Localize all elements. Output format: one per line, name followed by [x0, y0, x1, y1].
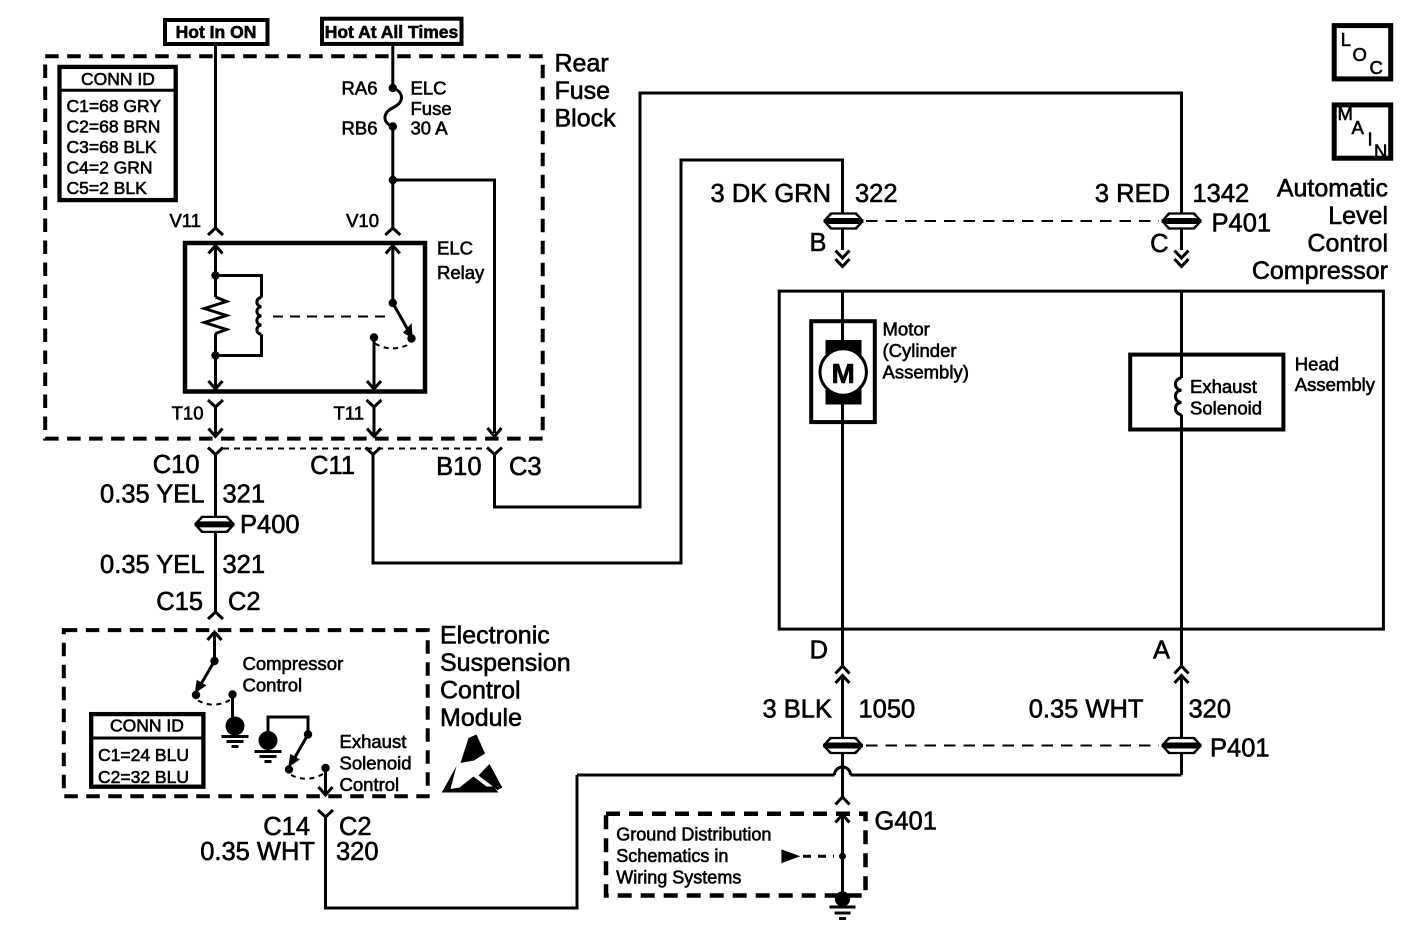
- svg-text:0.35 WHT: 0.35 WHT: [1029, 696, 1144, 724]
- svg-text:C1=24 BLU: C1=24 BLU: [98, 745, 189, 765]
- arrow down to C14 border: [324, 768, 327, 795]
- relay box ELC Relay: [185, 243, 425, 392]
- connector dashed tie line C10-C11-B10: [223, 448, 487, 450]
- wire C11 to B terminal (3 DK GRN 322): [373, 160, 843, 563]
- svg-text:I: I: [1368, 129, 1373, 150]
- junction node: [389, 176, 397, 184]
- svg-text:C1=68 GRY: C1=68 GRY: [67, 96, 162, 116]
- svg-text:Fuse: Fuse: [411, 98, 452, 119]
- svg-text:Compressor: Compressor: [1252, 257, 1388, 285]
- node on ground wire: [839, 853, 846, 860]
- relay node top-left: [211, 271, 219, 279]
- ground G401 symbol: [835, 891, 850, 906]
- wire C14 down and right (0.35 WHT 320): [326, 775, 578, 908]
- svg-text:0.35 WHT: 0.35 WHT: [200, 838, 315, 866]
- relay pin arrow up (V10 side): [386, 246, 400, 254]
- svg-text:C2: C2: [228, 588, 261, 616]
- svg-text:Control: Control: [243, 675, 303, 696]
- arrow up D with stem to lens: [836, 676, 850, 684]
- svg-text:Compressor: Compressor: [243, 653, 344, 674]
- terminal fork C14: [318, 810, 333, 823]
- wire: fuse to junction: [391, 127, 394, 181]
- svg-text:Module: Module: [440, 704, 522, 732]
- svg-text:Relay: Relay: [437, 262, 485, 283]
- arrow up A with stem to lens: [1175, 676, 1189, 684]
- wire C10 to P400: [214, 460, 217, 516]
- svg-text:Motor: Motor: [883, 319, 930, 340]
- svg-text:Electronic: Electronic: [440, 622, 550, 650]
- svg-text:320: 320: [336, 838, 379, 866]
- svg-text:C: C: [1150, 230, 1168, 258]
- svg-text:320: 320: [1189, 696, 1232, 724]
- fuse element S-curve: [385, 88, 402, 127]
- svg-text:CONN ID: CONN ID: [81, 69, 155, 89]
- terminal fork V11: [208, 228, 223, 235]
- terminal fork G401: [836, 797, 850, 805]
- svg-text:T11: T11: [333, 403, 364, 424]
- exhaust solenoid switch pivot node: [304, 730, 312, 738]
- fuse ELC 30A: node RA6: [389, 84, 397, 92]
- svg-text:Schematics in: Schematics in: [616, 846, 728, 866]
- relay dashed throw arc: [375, 344, 410, 349]
- svg-text:N: N: [1374, 141, 1387, 162]
- compressor control contact node: [192, 691, 200, 699]
- relay switch arm with arrowhead: [393, 303, 408, 330]
- svg-text:321: 321: [223, 481, 266, 509]
- connector P400 lens: [195, 516, 235, 533]
- node RB6: [389, 122, 397, 130]
- box: MAIN: [1334, 105, 1391, 158]
- svg-text:P401: P401: [1210, 735, 1270, 763]
- reference arrow (see ground distribution): [781, 849, 800, 863]
- svg-text:(Cylinder: (Cylinder: [883, 340, 957, 361]
- svg-text:3 BLK: 3 BLK: [763, 696, 832, 724]
- terminal fork T11: [367, 400, 382, 414]
- motor M1 (cylinder assembly): [811, 321, 875, 422]
- svg-text:P401: P401: [1212, 210, 1272, 238]
- svg-text:Solenoid: Solenoid: [1190, 398, 1262, 419]
- svg-text:RA6: RA6: [342, 78, 378, 99]
- ESC pin arrow up at C2 (compressor control): [208, 632, 222, 640]
- ground stem (switch 1): [231, 695, 234, 718]
- svg-text:Block: Block: [555, 105, 617, 133]
- terminal fork V10: [385, 228, 400, 235]
- relay pin arrow up (V11 side): [209, 246, 223, 254]
- svg-text:C10: C10: [153, 451, 200, 479]
- exhaust solenoid switch arm: [295, 735, 309, 759]
- wire P400 to C15: [214, 533, 217, 612]
- connector lens D (BLK): [823, 737, 863, 754]
- dashed box: Ground Distribution: [606, 814, 866, 896]
- ground symbol (switch 2): [259, 731, 278, 750]
- svg-text:T10: T10: [172, 403, 204, 424]
- exhaust solenoid coil: [1175, 378, 1181, 415]
- ground hook wire (switch 2): [268, 717, 308, 735]
- arrow T11 to border: [373, 414, 376, 437]
- svg-text:C4=2 GRN: C4=2 GRN: [67, 158, 153, 178]
- resistor (relay coil suppression): [214, 276, 217, 298]
- svg-text:D: D: [810, 637, 828, 665]
- svg-text:Head: Head: [1295, 354, 1339, 375]
- terminal fork C11: [366, 448, 381, 461]
- arrow T10 to border: [214, 414, 217, 437]
- svg-text:A: A: [1352, 117, 1365, 138]
- B stem and double chevrons into compressor: [841, 230, 844, 251]
- svg-text:Hot In ON: Hot In ON: [176, 22, 257, 42]
- svg-text:G401: G401: [875, 808, 937, 836]
- svg-text:V11: V11: [169, 210, 201, 231]
- terminal fork A (below box): [1175, 666, 1189, 674]
- exhaust solenoid contact node: [285, 765, 293, 773]
- svg-text:C11: C11: [310, 452, 355, 480]
- box: Hot In ON: [165, 20, 268, 44]
- dashed box: Rear Fuse Block: [45, 56, 543, 438]
- svg-text:Control: Control: [440, 677, 521, 705]
- arrow down at fuse block border (B10 wire): [488, 428, 502, 437]
- svg-text:C5=2 BLK: C5=2 BLK: [67, 178, 148, 198]
- connector lens A (WHT): [1162, 737, 1202, 754]
- svg-text:Exhaust: Exhaust: [1190, 376, 1257, 397]
- svg-text:CONN ID: CONN ID: [110, 716, 184, 736]
- wire: junction to V10 fork: [391, 180, 394, 228]
- wire A lens down to WHT run: [1180, 754, 1183, 775]
- svg-text:1050: 1050: [859, 696, 916, 724]
- svg-text:C2: C2: [339, 813, 372, 841]
- terminal fork C10: [208, 448, 223, 461]
- box: compressor assembly: [779, 291, 1383, 629]
- wire: junction horizontal to B10 drop: [393, 180, 495, 433]
- svg-text:3 RED: 3 RED: [1095, 180, 1170, 208]
- box: Hot At All Times: [322, 19, 462, 44]
- svg-text:322: 322: [855, 180, 898, 208]
- terminal fork B10: [487, 448, 502, 461]
- svg-text:C14: C14: [263, 813, 310, 841]
- svg-text:Control: Control: [340, 774, 400, 795]
- relay node bottom-left: [211, 351, 219, 359]
- ground symbol (switch 1): [226, 717, 245, 736]
- svg-text:Level: Level: [1328, 202, 1388, 230]
- C stem and double chevrons into compressor: [1180, 230, 1183, 251]
- box: head assembly solenoid: [1130, 355, 1283, 430]
- wire C into solenoid: [1180, 291, 1183, 378]
- svg-text:Automatic: Automatic: [1277, 175, 1388, 203]
- svg-text:1342: 1342: [1193, 180, 1250, 208]
- svg-text:Rear: Rear: [555, 50, 609, 78]
- svg-text:3 DK GRN: 3 DK GRN: [711, 180, 831, 208]
- compressor control output node: [228, 690, 236, 698]
- table: CONN ID (fuse block): [60, 67, 176, 200]
- svg-text:30 A: 30 A: [411, 118, 449, 139]
- wire: Hot In ON to V11: [214, 44, 217, 228]
- relay arrow down to T10: [214, 356, 217, 390]
- relay switch pivot node: [389, 299, 397, 307]
- svg-text:A: A: [1153, 637, 1170, 665]
- exhaust solenoid dashed throw arc: [291, 774, 323, 779]
- terminal fork T10: [208, 400, 223, 414]
- svg-text:C2=32 BLU: C2=32 BLU: [98, 767, 189, 787]
- svg-text:C3=68 BLK: C3=68 BLK: [67, 137, 157, 157]
- wire solenoid to box bottom: [1180, 415, 1183, 666]
- svg-text:ELC: ELC: [411, 78, 447, 99]
- svg-text:C: C: [1370, 57, 1383, 78]
- compressor control switch arm: [201, 661, 215, 684]
- svg-text:0.35 YEL: 0.35 YEL: [100, 481, 204, 509]
- box: LOC: [1334, 26, 1391, 79]
- wire WHT horizontal run with hop over BLK wire: [577, 774, 835, 777]
- relay switch output node: [370, 333, 378, 341]
- exhaust solenoid output node: [321, 764, 329, 772]
- svg-text:Assembly): Assembly): [883, 362, 969, 383]
- svg-text:Wiring Systems: Wiring Systems: [616, 868, 741, 888]
- relay arrow down to T11: [373, 338, 376, 390]
- svg-text:Solenoid: Solenoid: [340, 753, 412, 774]
- svg-text:C2=68 BRN: C2=68 BRN: [67, 117, 161, 137]
- dashed connector line B to C: [866, 220, 1159, 222]
- wire motor to box bottom: [841, 404, 844, 666]
- wire C3 to C terminal (3 RED 1342): [495, 93, 1182, 507]
- svg-text:L: L: [1341, 29, 1351, 50]
- relay dashed actuation line: [273, 316, 386, 318]
- terminal fork C15: [208, 612, 223, 619]
- dashed box: Electronic Suspension Control Module: [64, 630, 428, 796]
- svg-text:O: O: [1353, 44, 1367, 65]
- connector lens B: [824, 212, 864, 229]
- svg-text:ELC: ELC: [437, 238, 473, 259]
- relay coil: [216, 276, 262, 298]
- connector lens C: [1162, 212, 1202, 229]
- relay switch contact node: [407, 334, 415, 342]
- svg-text:Hot At All Times: Hot At All Times: [325, 22, 459, 42]
- svg-text:V10: V10: [346, 210, 379, 231]
- ESD sensitive device symbol: [442, 735, 503, 793]
- svg-text:M: M: [832, 358, 855, 389]
- wire: Hot At All Times down to fuse: [391, 44, 394, 88]
- wire BLK lens down through hop to G401: [841, 754, 844, 797]
- svg-text:C3: C3: [509, 453, 542, 481]
- svg-text:B10: B10: [436, 453, 481, 481]
- svg-text:P400: P400: [240, 511, 300, 539]
- table: CONN ID (ESC module): [91, 714, 203, 787]
- svg-text:B: B: [809, 229, 826, 257]
- svg-text:Fuse: Fuse: [555, 77, 611, 105]
- svg-text:Suspension: Suspension: [440, 649, 571, 677]
- svg-text:0.35 YEL: 0.35 YEL: [100, 551, 204, 579]
- svg-text:Assembly: Assembly: [1295, 374, 1376, 395]
- svg-text:Control: Control: [1307, 230, 1388, 258]
- svg-text:C15: C15: [156, 588, 203, 616]
- svg-text:Ground Distribution: Ground Distribution: [616, 825, 771, 845]
- arrow up into ground box: [836, 815, 850, 823]
- compressor control switch pivot node: [210, 657, 218, 665]
- wire B into motor: [841, 291, 844, 341]
- dashed connector line D to A: [866, 745, 1159, 747]
- svg-text:Exhaust: Exhaust: [340, 731, 407, 752]
- compressor control dashed throw arc: [198, 700, 230, 705]
- svg-text:321: 321: [223, 551, 266, 579]
- svg-text:RB6: RB6: [342, 118, 378, 139]
- terminal fork D (below box): [836, 666, 850, 674]
